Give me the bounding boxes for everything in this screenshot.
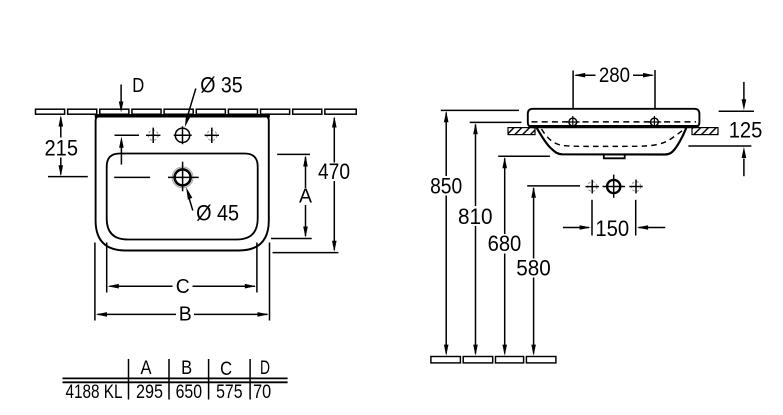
basin top edge (thick): [95, 114, 270, 117]
svg-text:B: B: [179, 304, 192, 326]
table column separators: [129, 359, 251, 400]
svg-text:580: 580: [516, 256, 551, 281]
floor bricks: [431, 357, 556, 363]
tap hole left cross: [146, 128, 160, 143]
tap hole right cross: [205, 128, 219, 143]
svg-text:C: C: [220, 359, 232, 380]
drain O45: [168, 162, 199, 192]
bowl inner hidden dashed line: [542, 129, 685, 147]
svg-text:4188 KL: 4188 KL: [66, 382, 123, 403]
svg-text:850: 850: [430, 174, 462, 199]
dimension B: [95, 243, 270, 321]
svg-text:D: D: [132, 75, 144, 97]
dimension 680: [498, 156, 550, 353]
svg-text:D: D: [260, 358, 270, 379]
dimension 580: [527, 186, 580, 354]
leader O35: [185, 89, 196, 128]
wall hatch left: [508, 128, 535, 135]
rim bottom thick edge: [529, 125, 699, 128]
dimension C: [107, 243, 257, 293]
svg-text:680: 680: [488, 231, 522, 256]
rim hidden dashed line: [532, 121, 697, 123]
dimension 280: [573, 70, 655, 117]
wall hatch right: [692, 128, 718, 135]
svg-text:A: A: [141, 358, 152, 379]
dimension D arrow up: [119, 137, 124, 165]
bowl drain tab: [604, 154, 625, 158]
svg-text:810: 810: [458, 204, 493, 229]
dimension 215: [48, 118, 88, 177]
drain centerline left ext: [114, 176, 150, 178]
svg-text:70: 70: [253, 382, 271, 403]
dimension 150: [563, 200, 665, 236]
svg-text:215: 215: [45, 135, 79, 160]
fixing hole left: [566, 116, 580, 128]
fixing hole right: [648, 116, 662, 128]
svg-text:125: 125: [729, 118, 763, 143]
svg-text:Ø 45: Ø 45: [196, 201, 239, 226]
supply hole right cross (side view): [629, 180, 642, 194]
svg-text:150: 150: [595, 216, 629, 241]
dimension 850: [441, 110, 519, 353]
dimension 125: [688, 82, 754, 176]
wall (front view) brick row: [36, 109, 357, 114]
svg-text:A: A: [299, 185, 313, 207]
svg-text:Ø 35: Ø 35: [200, 73, 243, 98]
dimension 810: [470, 122, 522, 353]
leader O45: [186, 187, 193, 210]
supply center circle (side view): [603, 175, 626, 198]
svg-text:B: B: [181, 358, 192, 379]
svg-text:470: 470: [318, 159, 350, 184]
tap hole center circle (O35): [174, 126, 192, 144]
rim bar (side view top): [528, 109, 700, 128]
dimension D ext line at tap level: [115, 134, 140, 136]
supply hole left cross (side view): [586, 180, 599, 194]
svg-text:575: 575: [216, 382, 243, 403]
bowl outline (side view): [537, 128, 687, 155]
svg-text:650: 650: [176, 382, 202, 403]
svg-text:295: 295: [136, 382, 163, 403]
table double header line: [63, 377, 288, 379]
svg-text:C: C: [176, 276, 190, 298]
basin outer outline: [96, 115, 269, 251]
dimension D arrow down: [119, 85, 124, 113]
dimension A: [271, 154, 312, 238]
svg-text:280: 280: [599, 64, 630, 87]
dimension 470: [273, 118, 339, 253]
basin inner outline: [107, 154, 258, 240]
